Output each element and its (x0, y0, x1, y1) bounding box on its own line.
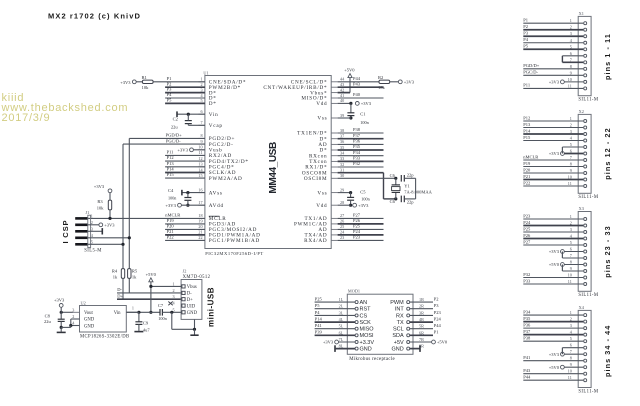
svg-text:+5V: +5V (394, 340, 404, 346)
svg-text:+3V3: +3V3 (549, 249, 560, 254)
svg-text:P39: P39 (315, 330, 323, 335)
svg-text:Y1: Y1 (404, 183, 410, 188)
svg-text:U1: U1 (203, 70, 208, 75)
svg-text:GND: GND (84, 324, 95, 329)
svg-text:5: 5 (570, 142, 572, 147)
svg-text:P36: P36 (353, 139, 361, 144)
svg-text:3: 3 (173, 294, 175, 299)
svg-text:43: 43 (340, 82, 344, 87)
svg-text:7L: 7L (339, 337, 344, 342)
svg-text:P41: P41 (523, 355, 530, 360)
svg-text:5: 5 (570, 240, 572, 245)
svg-text:P25: P25 (315, 297, 323, 302)
svg-text:P44: P44 (523, 375, 531, 380)
svg-text:2017/3/9: 2017/3/9 (2, 112, 51, 124)
svg-text:PGC1/PWM1B/AD: PGC1/PWM1B/AD (209, 238, 260, 244)
svg-text:Vout: Vout (84, 311, 93, 316)
svg-text:D+: D+ (187, 298, 193, 303)
svg-text:3: 3 (570, 323, 572, 328)
svg-text:1: 1 (173, 281, 175, 286)
svg-text:+5V0: +5V0 (549, 365, 560, 370)
svg-text:+3V3: +3V3 (94, 184, 105, 189)
svg-text:I CSP: I CSP (61, 220, 70, 244)
svg-text:PIC32MX170F256D-I/PT: PIC32MX170F256D-I/PT (205, 251, 264, 256)
svg-text:19: 19 (198, 219, 202, 224)
svg-text:33: 33 (340, 156, 344, 161)
svg-text:MISO: MISO (360, 327, 375, 333)
svg-text:3: 3 (201, 87, 203, 92)
svg-text:21: 21 (198, 230, 202, 235)
svg-text:10: 10 (568, 273, 572, 278)
svg-text:100n: 100n (158, 316, 167, 321)
svg-text:P25: P25 (523, 226, 531, 231)
svg-text:11: 11 (568, 375, 572, 380)
svg-text:SIL11-M: SIL11-M (578, 293, 599, 298)
svg-text:+3V3: +3V3 (549, 352, 560, 357)
svg-text:P23: P23 (353, 235, 361, 240)
svg-text:P38: P38 (523, 335, 531, 340)
svg-text:CS: CS (360, 313, 368, 319)
svg-text:22u: 22u (44, 319, 52, 324)
svg-text:P43: P43 (353, 81, 361, 86)
svg-text:P4: P4 (523, 37, 529, 42)
svg-text:27: 27 (340, 213, 344, 218)
svg-text:Vss: Vss (317, 116, 327, 122)
svg-text:P27: P27 (353, 213, 361, 218)
svg-text:+3V3: +3V3 (358, 203, 369, 208)
svg-text:C7: C7 (158, 303, 164, 308)
svg-text:P19: P19 (523, 161, 531, 166)
svg-text:P20: P20 (523, 167, 531, 172)
svg-text:2: 2 (570, 123, 572, 128)
svg-text:P5: P5 (523, 44, 529, 49)
svg-text:P2: P2 (167, 81, 172, 86)
svg-text:P22: P22 (523, 180, 530, 185)
svg-text:AVdd: AVdd (209, 203, 224, 209)
svg-text:40: 40 (340, 98, 344, 103)
svg-text:3: 3 (570, 227, 572, 232)
svg-text:P35: P35 (353, 144, 361, 149)
svg-text:mini-USB: mini-USB (207, 287, 216, 327)
svg-text:10k: 10k (142, 85, 150, 90)
svg-text:11: 11 (568, 181, 572, 186)
svg-text:J2: J2 (183, 268, 187, 273)
svg-text:28: 28 (340, 200, 344, 205)
svg-text:1L: 1L (339, 297, 344, 302)
svg-text:P12: P12 (523, 115, 530, 120)
svg-text:7: 7 (570, 253, 572, 258)
svg-text:P2: P2 (523, 24, 528, 29)
svg-text:8: 8 (570, 162, 572, 167)
svg-text:20: 20 (198, 224, 202, 229)
svg-text:6: 6 (570, 247, 572, 252)
svg-text:10: 10 (568, 77, 572, 82)
svg-text:16: 16 (198, 187, 202, 192)
svg-text:PGC/D-: PGC/D- (166, 138, 181, 143)
svg-text:MCP1826S-3302E/DB: MCP1826S-3302E/DB (80, 334, 129, 339)
svg-text:5: 5 (201, 98, 203, 103)
svg-text:13: 13 (198, 162, 202, 167)
svg-text:P33: P33 (523, 278, 531, 283)
svg-text:12: 12 (198, 156, 202, 161)
svg-text:P32: P32 (353, 161, 360, 166)
svg-text:Vcap: Vcap (209, 123, 223, 129)
svg-text:SIL11-M: SIL11-M (578, 98, 599, 103)
svg-text:P12: P12 (167, 155, 174, 160)
svg-text:9: 9 (570, 168, 572, 173)
svg-text:SIL5-M: SIL5-M (84, 249, 102, 254)
svg-text:GND: GND (391, 347, 403, 353)
svg-text:2L: 2L (339, 304, 344, 309)
svg-text:P11: P11 (167, 150, 174, 155)
svg-text:1: 1 (570, 116, 572, 121)
svg-text:GND: GND (187, 311, 198, 316)
svg-text:P14: P14 (167, 167, 175, 172)
svg-text:P34: P34 (353, 150, 361, 155)
svg-text:RST: RST (360, 307, 372, 313)
svg-text:36: 36 (340, 139, 344, 144)
svg-text:6: 6 (570, 51, 572, 56)
svg-text:C6: C6 (390, 173, 396, 178)
svg-text:29: 29 (340, 187, 344, 192)
svg-text:P38: P38 (353, 127, 361, 132)
svg-text:+3V3: +3V3 (549, 151, 560, 156)
svg-text:P37: P37 (353, 133, 361, 138)
svg-text:22: 22 (198, 235, 202, 240)
svg-text:P33: P33 (353, 156, 361, 161)
svg-text:nMCLR: nMCLR (523, 154, 538, 159)
svg-text:X1: X1 (579, 11, 584, 16)
svg-text:C8: C8 (45, 314, 51, 319)
svg-text:UID: UID (187, 304, 196, 309)
svg-text:R5: R5 (132, 268, 138, 273)
svg-text:P15: P15 (523, 135, 531, 140)
svg-text:P4: P4 (167, 92, 173, 97)
svg-text:RX: RX (396, 313, 404, 319)
svg-text:7R: 7R (419, 337, 424, 342)
svg-text:P24: P24 (434, 317, 442, 322)
svg-text:+5V0: +5V0 (146, 272, 157, 277)
svg-text:18: 18 (198, 213, 202, 218)
svg-text:5R: 5R (419, 324, 424, 329)
svg-text:26: 26 (340, 219, 344, 224)
svg-text:+3V3: +3V3 (177, 148, 188, 153)
svg-text:42: 42 (340, 87, 344, 92)
svg-text:P23: P23 (434, 310, 442, 315)
svg-text:10: 10 (568, 369, 572, 374)
svg-text:SCK: SCK (360, 320, 372, 326)
svg-text:23: 23 (340, 235, 344, 240)
svg-text:D+: D+ (117, 293, 123, 298)
svg-text:22u: 22u (171, 124, 179, 129)
svg-text:P24: P24 (523, 220, 531, 225)
svg-text:P13: P13 (167, 161, 175, 166)
svg-text:6: 6 (570, 343, 572, 348)
svg-text:pins 34 - 44: pins 34 - 44 (603, 325, 612, 377)
svg-text:P40: P40 (353, 92, 361, 97)
svg-text:100n: 100n (360, 120, 369, 125)
svg-text:PWM: PWM (390, 300, 404, 306)
svg-text:P3: P3 (523, 31, 529, 36)
svg-text:D-: D- (117, 287, 122, 292)
svg-text:37: 37 (340, 134, 344, 139)
svg-text:MM44_USB: MM44_USB (268, 142, 279, 194)
svg-text:17: 17 (198, 200, 202, 205)
svg-text:2: 2 (201, 82, 203, 87)
svg-text:Mikrobus receptacle: Mikrobus receptacle (349, 357, 395, 362)
svg-text:5L: 5L (339, 324, 344, 329)
svg-text:Vss: Vss (317, 190, 327, 196)
svg-text:+3V3: +3V3 (361, 101, 372, 106)
svg-text:7: 7 (201, 120, 203, 125)
svg-text:+5V0: +5V0 (344, 68, 355, 73)
svg-text:100n: 100n (168, 196, 177, 201)
svg-text:GND: GND (84, 318, 95, 323)
svg-text:SCL: SCL (393, 327, 404, 333)
svg-text:9: 9 (570, 70, 572, 75)
svg-text:X3: X3 (579, 206, 584, 211)
svg-text:+3V3: +3V3 (404, 80, 415, 85)
svg-text:9: 9 (570, 362, 572, 367)
svg-text:4u7: 4u7 (143, 327, 151, 332)
svg-text:31: 31 (340, 168, 344, 173)
svg-text:+3V3: +3V3 (54, 298, 65, 303)
svg-text:pins 23 - 33: pins 23 - 33 (603, 225, 612, 277)
svg-text:8: 8 (570, 64, 572, 69)
svg-text:1: 1 (201, 77, 203, 82)
svg-text:P14: P14 (523, 128, 531, 133)
svg-text:+3V3: +3V3 (104, 223, 115, 228)
svg-text:P19: P19 (167, 218, 175, 223)
svg-text:2: 2 (72, 314, 74, 319)
svg-text:+3V3: +3V3 (323, 340, 334, 345)
svg-text:30: 30 (340, 173, 344, 178)
svg-text:SDA: SDA (392, 333, 404, 339)
svg-text:1k: 1k (113, 274, 118, 279)
svg-text:PGD/D+: PGD/D+ (166, 133, 183, 138)
svg-text:nMCLR: nMCLR (165, 213, 180, 218)
svg-text:P23: P23 (523, 213, 531, 218)
svg-text:pins 12 - 22: pins 12 - 22 (603, 127, 612, 179)
svg-text:P15: P15 (167, 172, 175, 177)
svg-text:P41: P41 (315, 323, 322, 328)
svg-text:MX2 r1702 (c) KnivD: MX2 r1702 (c) KnivD (48, 12, 141, 21)
svg-text:2: 2 (173, 288, 175, 293)
svg-text:SIL11-M: SIL11-M (578, 195, 599, 200)
svg-text:INT: INT (395, 307, 405, 313)
svg-text:P43: P43 (523, 368, 531, 373)
svg-text:+5V0: +5V0 (549, 262, 560, 267)
svg-text:PGC/D-: PGC/D- (523, 70, 538, 75)
svg-text:P44: P44 (434, 323, 442, 328)
svg-text:P22: P22 (167, 235, 174, 240)
svg-text:AN: AN (360, 300, 368, 306)
svg-text:D-: D- (187, 292, 192, 297)
svg-text:C4: C4 (168, 188, 174, 193)
svg-text:RX4/AD: RX4/AD (304, 238, 327, 244)
svg-text:P13: P13 (523, 122, 531, 127)
svg-text:P1: P1 (167, 76, 172, 81)
svg-text:8: 8 (570, 356, 572, 361)
svg-text:R4: R4 (112, 268, 118, 273)
svg-text:P21: P21 (523, 174, 530, 179)
svg-text:6: 6 (201, 109, 203, 114)
svg-text:J1: J1 (85, 210, 89, 215)
svg-text:X2: X2 (579, 109, 584, 114)
svg-text:1: 1 (570, 18, 572, 23)
svg-text:+3V3: +3V3 (549, 80, 560, 85)
svg-text:P25: P25 (353, 224, 361, 229)
svg-text:P37: P37 (523, 329, 531, 334)
svg-text:2R: 2R (419, 304, 424, 309)
svg-text:11: 11 (199, 150, 203, 155)
svg-text:11: 11 (568, 83, 572, 88)
svg-text:MOD1: MOD1 (348, 289, 360, 294)
svg-text:P5: P5 (167, 98, 173, 103)
svg-text:38: 38 (340, 128, 344, 133)
svg-text:8: 8 (570, 260, 572, 265)
svg-text:1: 1 (570, 214, 572, 219)
svg-text:MOSI: MOSI (360, 333, 375, 339)
svg-text:10: 10 (198, 145, 202, 150)
svg-text:P35: P35 (523, 316, 531, 321)
svg-text:SIL11-M: SIL11-M (578, 389, 599, 394)
svg-text:P14: P14 (315, 317, 323, 322)
svg-text:P20: P20 (167, 224, 175, 229)
svg-text:C5: C5 (360, 189, 366, 194)
svg-text:Vin: Vin (114, 311, 121, 316)
svg-text:Vdd: Vdd (316, 203, 327, 209)
svg-text:X4: X4 (579, 305, 585, 310)
svg-text:1R: 1R (419, 297, 424, 302)
svg-text:P26: P26 (353, 218, 361, 223)
svg-text:+3.3V: +3.3V (360, 340, 375, 346)
svg-text:P4: P4 (315, 310, 321, 315)
svg-text:P36: P36 (523, 322, 531, 327)
svg-text:P24: P24 (353, 229, 361, 234)
svg-text:1: 1 (570, 310, 572, 315)
svg-text:XM7D-0512: XM7D-0512 (183, 275, 211, 280)
svg-text:P34: P34 (523, 309, 531, 314)
svg-text:3R: 3R (419, 310, 424, 315)
svg-text:P11: P11 (523, 83, 530, 88)
svg-text:Vbus: Vbus (187, 285, 197, 290)
svg-text:C1: C1 (360, 111, 365, 116)
svg-text:3: 3 (72, 307, 74, 312)
svg-text:15: 15 (198, 173, 202, 178)
svg-text:U2: U2 (81, 300, 86, 305)
svg-text:Vdd: Vdd (316, 101, 327, 107)
svg-text:9: 9 (201, 139, 203, 144)
svg-text:22p: 22p (407, 173, 415, 178)
svg-text:R3: R3 (97, 199, 103, 204)
svg-text:1k: 1k (132, 274, 137, 279)
svg-text:P1: P1 (523, 18, 528, 23)
svg-text:P5: P5 (315, 303, 321, 308)
svg-text:P21: P21 (167, 229, 174, 234)
svg-text:C6: C6 (390, 199, 396, 204)
svg-text:D*: D* (209, 101, 217, 107)
svg-text:+5V0: +5V0 (437, 340, 448, 345)
svg-text:9: 9 (570, 266, 572, 271)
svg-text:pins 1 - 11: pins 1 - 11 (603, 33, 612, 80)
svg-text:P3: P3 (167, 87, 173, 92)
svg-text:+3V3: +3V3 (120, 80, 131, 85)
svg-text:100n: 100n (361, 197, 370, 202)
svg-text:7: 7 (570, 349, 572, 354)
svg-text:R2: R2 (378, 75, 383, 80)
svg-text:P1: P1 (434, 330, 439, 335)
svg-text:P32: P32 (523, 272, 530, 277)
svg-text:OSCI8M: OSCI8M (304, 176, 328, 182)
svg-text:41: 41 (340, 93, 344, 98)
svg-text:GND: GND (360, 347, 372, 353)
svg-text:AVss: AVss (209, 190, 223, 196)
svg-text:PGD/D+: PGD/D+ (523, 63, 540, 68)
svg-text:Vin: Vin (209, 112, 219, 118)
svg-text:8: 8 (201, 133, 203, 138)
svg-text:7: 7 (570, 155, 572, 160)
svg-text:C9: C9 (143, 320, 149, 325)
svg-text:PWM2A/AD: PWM2A/AD (209, 176, 243, 182)
svg-text:1: 1 (132, 306, 134, 311)
svg-text:35: 35 (340, 145, 344, 150)
svg-text:11: 11 (568, 279, 572, 284)
svg-text:22p: 22p (407, 200, 415, 205)
svg-text:5: 5 (570, 336, 572, 341)
svg-text:25: 25 (340, 224, 344, 229)
svg-text:3L: 3L (339, 310, 344, 315)
svg-text:32: 32 (340, 162, 344, 167)
svg-text:P3: P3 (434, 303, 440, 308)
svg-text:R1: R1 (142, 75, 147, 80)
svg-text:P2: P2 (434, 297, 439, 302)
svg-text:C2: C2 (173, 117, 178, 122)
svg-text:7A-8.000MAA: 7A-8.000MAA (404, 190, 432, 195)
svg-text:39: 39 (340, 113, 344, 118)
svg-text:10k: 10k (97, 205, 105, 210)
svg-text:+3V3: +3V3 (165, 203, 176, 208)
svg-text:P27: P27 (523, 239, 531, 244)
svg-text:TX: TX (397, 320, 404, 326)
svg-text:P26: P26 (523, 233, 531, 238)
svg-text:P44: P44 (353, 76, 361, 81)
